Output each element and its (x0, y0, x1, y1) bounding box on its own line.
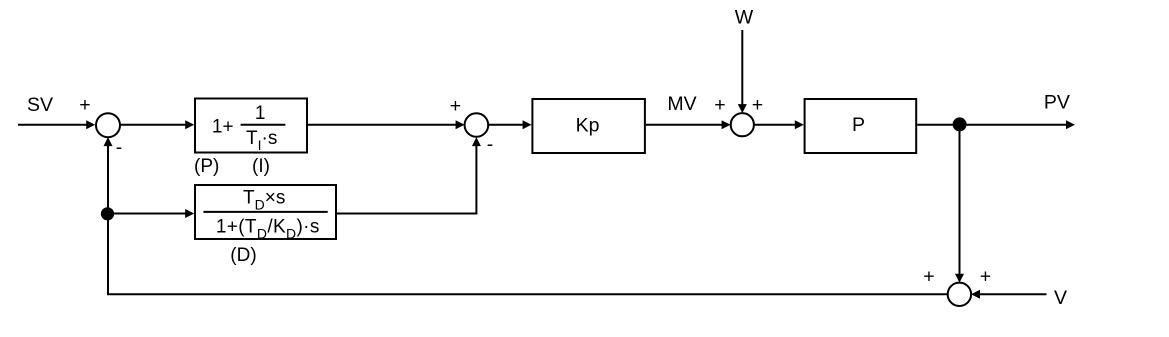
svg-text:+: + (79, 94, 90, 116)
arrowhead D into S2 bottom (472, 137, 481, 146)
wire SV input (18, 124, 87, 126)
block Kp (532, 99, 645, 153)
svg-text:+: + (923, 266, 934, 288)
wire S3 to P block (754, 124, 796, 126)
svg-text:PV: PV (1044, 92, 1070, 114)
wire S1 to PI block (120, 124, 187, 126)
svg-text:+: + (752, 94, 763, 116)
summing junction S4 (948, 283, 971, 306)
svg-text:W: W (735, 7, 754, 29)
wire S2 to Kp block (488, 124, 523, 126)
wire D block to S2 (337, 146, 476, 214)
arrowhead into PI block (185, 120, 194, 129)
arrowhead W into S3 top (738, 104, 747, 113)
block P (805, 99, 917, 153)
summing junction S3 (731, 113, 754, 136)
arrowhead into D block (185, 209, 194, 218)
arrowhead into S3 (722, 120, 731, 129)
svg-text:-: - (116, 137, 123, 159)
wire P to PV output (917, 124, 1066, 126)
svg-text:(D): (D) (230, 245, 256, 266)
svg-text:(P): (P) (194, 156, 219, 177)
wire Kp to S3 (646, 124, 723, 126)
arrowhead into P block (795, 120, 804, 129)
svg-text:Kp: Kp (576, 115, 600, 137)
svg-text:+: + (980, 266, 991, 288)
junction dot feedback to D (101, 207, 114, 220)
svg-text:+: + (450, 95, 461, 117)
svg-text:SV: SV (27, 94, 53, 116)
wire feedback junction to D block (112, 213, 187, 215)
svg-text:MV: MV (667, 93, 696, 115)
summing junction S2 (465, 113, 489, 137)
wire PV branch down to S4 (959, 128, 961, 275)
junction dot after P block (953, 117, 967, 131)
svg-text:TI·s: TI·s (246, 128, 277, 153)
arrowhead into S4 top (955, 274, 964, 283)
arrowhead PV output (1066, 120, 1075, 129)
svg-text:P: P (852, 114, 865, 136)
svg-text:-: - (487, 134, 494, 156)
wire PI block to S2 (308, 124, 457, 126)
summing junction S1 (96, 113, 120, 137)
arrowhead V into S4 right (971, 290, 980, 299)
PI block fraction bar (241, 124, 286, 126)
svg-text:1+(TD/KD)·s: 1+(TD/KD)·s (216, 216, 320, 241)
svg-text:V: V (1054, 287, 1067, 309)
svg-text:+: + (714, 94, 725, 116)
D block fraction bar (203, 211, 327, 213)
svg-text:(I): (I) (252, 156, 270, 177)
wire V input (980, 293, 1047, 295)
block PI (1 + 1/TIs) (195, 99, 307, 153)
wire feedback vertical up to S1 (107, 146, 109, 220)
svg-text:1+: 1+ (212, 116, 234, 137)
block D (TD s over 1+(TD/KD)s) (195, 185, 336, 239)
arrowhead into S2 (456, 120, 465, 129)
wire feedback bottom horizontal (108, 208, 948, 294)
arrowhead into Kp block (523, 120, 532, 129)
arrowhead feedback into S1 bottom (104, 137, 113, 146)
wire W down into S3 (741, 30, 743, 106)
svg-text:TD×s: TD×s (243, 188, 285, 213)
svg-text:1: 1 (255, 103, 266, 124)
arrowhead into S1 (86, 120, 95, 129)
